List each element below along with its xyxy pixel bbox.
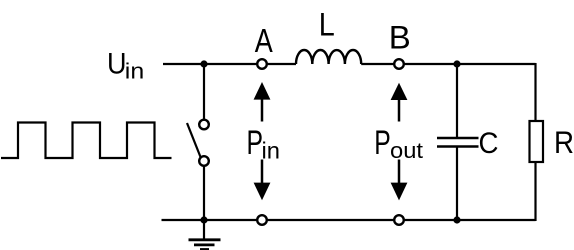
junction dot top of switch bbox=[200, 60, 207, 67]
capacitor top plate bbox=[437, 137, 479, 139]
svg-text:P: P bbox=[374, 124, 391, 162]
node A bbox=[257, 59, 267, 69]
svg-text:A: A bbox=[255, 22, 273, 59]
wire top rail to capacitor top plate bbox=[456, 64, 458, 138]
junction dot top of capacitor bbox=[453, 60, 460, 67]
junction dot bottom of capacitor bbox=[453, 216, 460, 223]
svg-text:C: C bbox=[479, 127, 499, 160]
svg-text:B: B bbox=[389, 20, 411, 56]
inductor L bbox=[296, 50, 361, 64]
resistor R bbox=[530, 63, 544, 221]
arrow P_in down bbox=[254, 160, 271, 201]
arrow P_out down bbox=[391, 160, 408, 201]
node B bbox=[394, 59, 404, 69]
svg-text:in: in bbox=[262, 138, 281, 164]
square wave source waveform bbox=[1, 123, 172, 159]
wire inductor to node B bbox=[361, 63, 394, 65]
switch lower contact circle bbox=[199, 156, 209, 166]
wire resistor to bottom rail bbox=[534, 162, 536, 221]
wire capacitor bottom plate to bottom rail bbox=[456, 147, 458, 220]
wire switch lower contact to bottom rail bbox=[203, 166, 205, 221]
capacitor bottom plate bbox=[437, 145, 479, 147]
capacitor C bbox=[437, 64, 479, 220]
wire top rail left segment bbox=[163, 63, 258, 65]
switch S1 bbox=[187, 64, 209, 220]
wire top rail to switch upper contact bbox=[203, 64, 205, 120]
svg-text:R: R bbox=[554, 124, 574, 160]
wire bottom rail bbox=[162, 219, 536, 221]
wire node A to inductor bbox=[267, 63, 297, 65]
switch lever bbox=[187, 123, 201, 157]
junction dot bottom of switch bbox=[200, 216, 207, 223]
arrow P_in up bbox=[254, 82, 271, 122]
node P_in bottom terminal bbox=[257, 215, 267, 225]
resistor body bbox=[530, 121, 544, 162]
wire top rail corner to resistor bbox=[534, 63, 536, 121]
svg-text:in: in bbox=[125, 59, 144, 84]
switch upper contact circle bbox=[199, 120, 209, 130]
wire node B to right corner bbox=[404, 63, 536, 65]
arrow P_out up bbox=[391, 83, 408, 122]
svg-text:out: out bbox=[390, 138, 424, 163]
svg-text:L: L bbox=[319, 7, 335, 43]
ground bbox=[189, 220, 221, 250]
node P_out bottom terminal bbox=[394, 215, 404, 225]
svg-text:U: U bbox=[107, 48, 127, 81]
